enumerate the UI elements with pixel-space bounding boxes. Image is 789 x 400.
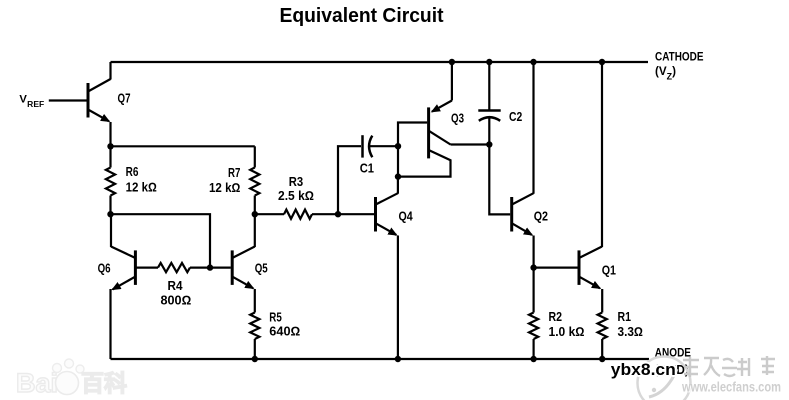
wire node B to node C [111, 214, 211, 267]
node Q3 emitter rail dot [449, 59, 455, 65]
transistor Q2 [512, 193, 534, 235]
resistor R1 [598, 313, 607, 360]
svg-text:Q6: Q6 [98, 262, 111, 276]
svg-text:Q1: Q1 [602, 264, 616, 278]
wire node A to R7 top [111, 145, 255, 147]
wire Q5 emitter to R5 [254, 289, 256, 313]
transistor Q3 (dual-collector PNP) [398, 62, 489, 177]
svg-text:C2: C2 [509, 110, 522, 124]
wire node H to Q2 base [489, 145, 510, 215]
svg-text:Equivalent Circuit: Equivalent Circuit [280, 5, 444, 27]
wire node F to node G [397, 146, 399, 176]
svg-text:Q7: Q7 [118, 91, 131, 105]
wire Q1 collector to top rail [601, 62, 603, 247]
wire Q4 emitter to bottom rail [397, 236, 399, 360]
node Q4 rail dot [395, 356, 401, 362]
resistor R6 [106, 146, 115, 214]
resistor R7 [250, 146, 259, 214]
svg-text:R1: R1 [618, 310, 632, 324]
resistor R5 [250, 313, 259, 360]
svg-text:800Ω: 800Ω [161, 294, 192, 308]
svg-text:www.elecfans.com: www.elecfans.com [681, 380, 781, 395]
svg-text:Q3: Q3 [451, 111, 464, 125]
svg-text:R5: R5 [269, 310, 282, 324]
svg-text:R7: R7 [228, 166, 240, 180]
node F junction dot [395, 143, 401, 149]
node A junction dot [107, 143, 113, 149]
node R2 rail dot [530, 356, 536, 362]
transistor Q5 [232, 247, 255, 289]
wire C1 to node F [369, 145, 398, 147]
watermark baidu baike (bottom-left) [16, 359, 127, 398]
svg-text:1.0 kΩ: 1.0 kΩ [549, 325, 585, 339]
svg-text:Q4: Q4 [399, 210, 413, 224]
wire Q2 collector to top rail [532, 62, 534, 194]
transistor Q6 [111, 247, 135, 290]
node D junction dot [252, 211, 258, 217]
svg-text:REF: REF [27, 100, 44, 109]
wire node F to Q3 base [398, 123, 427, 147]
wire VREF to Q7 base [49, 99, 87, 101]
node R5 rail dot [252, 356, 258, 362]
svg-text:640Ω: 640Ω [269, 325, 300, 339]
svg-text:(VZ): (VZ) [655, 66, 676, 82]
wire node E to Q4 base [338, 213, 374, 215]
svg-text:R3: R3 [289, 175, 303, 189]
node C2 rail dot [486, 59, 492, 65]
svg-text:C1: C1 [360, 161, 374, 175]
resistor R2 [529, 268, 538, 359]
wire top rail (cathode bus) [111, 61, 649, 63]
wire Q1 emitter to R1 [601, 289, 603, 313]
svg-text:ybx8.cn: ybx8.cn [611, 360, 676, 379]
resistor R3 [255, 210, 338, 219]
svg-text:2.5 kΩ: 2.5 kΩ [278, 189, 314, 203]
wire node E up to C1 [338, 146, 361, 214]
wire Q4 collector to node G [397, 177, 399, 194]
wire Q6 collector to node B [110, 214, 112, 247]
node G junction dot [395, 173, 401, 179]
wire bottom rail (anode bus) [111, 358, 650, 360]
svg-text:12 kΩ: 12 kΩ [126, 180, 157, 194]
transistor Q4 [376, 193, 398, 235]
svg-text:Q2: Q2 [534, 210, 548, 224]
capacitor C2 [478, 62, 500, 145]
wire node I to Q1 base [534, 267, 578, 269]
node H junction dot [486, 141, 492, 147]
wire node C to Q5 base [210, 267, 231, 269]
svg-text:Q5: Q5 [255, 262, 268, 276]
node Q1 collector rail dot [599, 59, 605, 65]
svg-text:3.3Ω: 3.3Ω [618, 325, 644, 339]
node B junction dot [107, 211, 113, 217]
wire Q2 emitter to node I [532, 236, 534, 268]
capacitor C1 [363, 135, 373, 157]
transistor Q1 [579, 247, 602, 289]
svg-text:R6: R6 [126, 165, 139, 179]
wire Q7 emitter to node A [109, 122, 111, 146]
transistor Q7 [88, 62, 111, 121]
svg-text:R4: R4 [168, 279, 183, 293]
svg-text:百科: 百科 [81, 370, 127, 396]
wire Q6 emitter to bottom rail [109, 289, 111, 359]
svg-text:12 kΩ: 12 kΩ [209, 181, 240, 195]
svg-text:R2: R2 [549, 310, 563, 324]
node R1 rail dot [599, 356, 605, 362]
node E junction dot [335, 211, 341, 217]
watermark elecfans (bottom-right) [638, 356, 782, 400]
node C junction dot [207, 264, 213, 270]
svg-text:CATHODE: CATHODE [655, 52, 704, 64]
node I junction dot [530, 264, 536, 270]
node Q2 collector rail dot [530, 59, 536, 65]
svg-text:Bai: Bai [16, 368, 58, 398]
resistor R4 [135, 263, 210, 272]
node VREF label [19, 94, 44, 110]
wire Q5 collector to node D [254, 214, 256, 247]
